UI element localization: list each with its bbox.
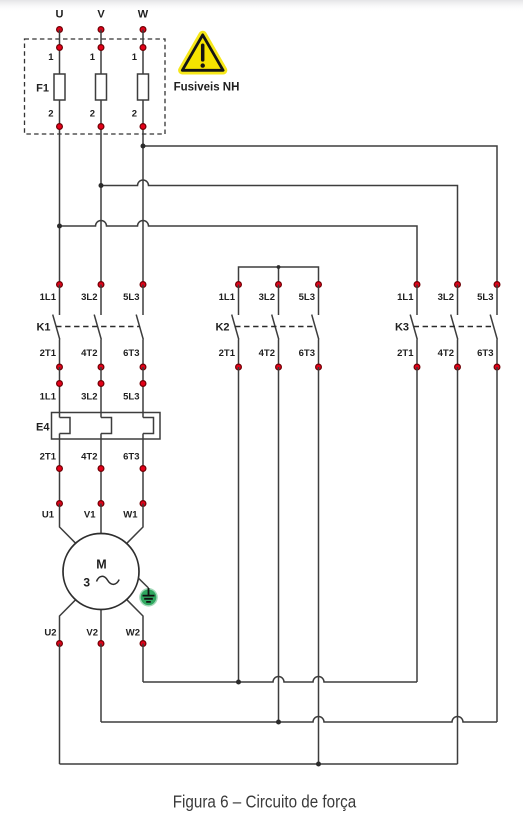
terminal dot U (enclosure top): [57, 45, 63, 51]
svg-text:2T1: 2T1: [219, 348, 236, 359]
svg-text:2T1: 2T1: [397, 348, 414, 359]
svg-text:3: 3: [83, 576, 90, 590]
terminal dot K3 4T2: [455, 364, 461, 370]
svg-text:E4: E4: [36, 422, 50, 434]
terminal dot E4 3L2: [98, 381, 104, 387]
svg-text:4T2: 4T2: [259, 348, 275, 359]
svg-text:1: 1: [48, 52, 54, 63]
terminal dot motor W2: [140, 641, 146, 647]
terminal dot K3 1L1: [414, 282, 420, 288]
wire W2 down: [142, 644, 144, 683]
wire V: fuse F1 to contactor K1: [100, 100, 102, 285]
wire phase U bus to K3 1L1 (hops V,W): [60, 221, 418, 285]
terminal dot K2 3L2: [276, 282, 282, 288]
wire motor lead V2: [100, 609, 102, 644]
terminal dot motor U2: [57, 641, 63, 647]
fuse F1 pole 2 body: [96, 74, 107, 100]
svg-text:4T2: 4T2: [81, 452, 97, 463]
terminal dot U (enclosure bottom): [57, 124, 63, 130]
svg-text:1L1: 1L1: [40, 292, 57, 303]
svg-text:U1: U1: [42, 510, 55, 521]
caption Figura 6: [173, 793, 357, 812]
svg-text:K3: K3: [395, 322, 409, 334]
svg-text:K1: K1: [36, 322, 50, 334]
terminal dot E4 6T3: [140, 466, 146, 472]
wire U2 down: [59, 644, 61, 765]
junction phase U / bus: [57, 224, 62, 229]
svg-text:5L3: 5L3: [123, 392, 139, 403]
overload relay E4 body: [52, 413, 161, 440]
terminal dot K3 3L2: [455, 282, 461, 288]
svg-text:Figura 6 – Circuito de força: Figura 6 – Circuito de força: [173, 793, 357, 812]
fuse F1 dashed enclosure: [25, 39, 166, 134]
wire E4 6T3 to motor W1: [142, 434, 144, 504]
terminal dot K3 5L3: [494, 282, 500, 288]
wire bus U2 / K2 6T3 / K3 4T2: [60, 763, 458, 765]
terminal dot V: [98, 27, 104, 33]
contactor K1 pole 2 contact: [100, 285, 102, 316]
terminal dot V (enclosure top): [98, 45, 104, 51]
svg-text:1: 1: [90, 52, 96, 63]
svg-text:V1: V1: [84, 510, 96, 521]
terminal dot E4 2T1: [57, 466, 63, 472]
terminal dot motor U1: [57, 501, 63, 507]
wire K1 4T2 to E4 3L2: [100, 367, 102, 418]
wire K2 3L2 riser: [278, 267, 280, 285]
svg-text:U2: U2: [44, 628, 56, 639]
svg-text:3L2: 3L2: [438, 292, 454, 303]
wire W: fuse F1 to contactor K1: [142, 100, 144, 285]
wire K2 6T3 down: [318, 367, 320, 764]
junction K2 6T3 / bus: [316, 762, 321, 767]
svg-text:K2: K2: [215, 322, 229, 334]
junction K2 4T2 / bus: [276, 720, 281, 725]
svg-text:6T3: 6T3: [123, 348, 139, 359]
svg-text:3L2: 3L2: [81, 292, 97, 303]
terminal dot K2 6T3: [316, 364, 322, 370]
wire bus V2 / K2 4T2 / K3 6T3 (hops K2 6T3, K3 4T2): [101, 717, 497, 722]
wire K3 4T2 down: [457, 367, 459, 764]
terminal dot V (enclosure bottom): [98, 124, 104, 130]
junction phase W / bus: [141, 144, 146, 149]
wire K3 2T1 down: [416, 367, 418, 682]
svg-text:6T3: 6T3: [299, 348, 315, 359]
terminal dot K1 4T2: [98, 364, 104, 370]
svg-text:5L3: 5L3: [123, 292, 139, 303]
wire bus W2 / K2 2T1 / K3 2T1 (hops K2 4T2, K2 6T3): [143, 677, 417, 683]
terminal dot K1 6T3: [140, 364, 146, 370]
overload relay E4 heater element 1: [60, 418, 71, 434]
fuse F1 pole 3 body: [138, 74, 149, 100]
svg-text:2: 2: [48, 109, 53, 120]
contactor K3 pole 3 contact: [496, 285, 498, 316]
warning icon (Fusiveis NH): [182, 35, 223, 70]
terminal dot U: [57, 27, 63, 33]
svg-text:3L2: 3L2: [259, 292, 275, 303]
svg-text:F1: F1: [36, 83, 49, 95]
terminal dot E4 5L3: [140, 381, 146, 387]
svg-text:5L3: 5L3: [299, 292, 315, 303]
wire phase V bus to K3 3L2 (hops W): [101, 180, 458, 285]
svg-text:2T1: 2T1: [40, 452, 57, 463]
wire K2 2T1 down: [238, 367, 240, 682]
terminal dot motor V2: [98, 641, 104, 647]
wire motor lead W2: [127, 600, 143, 644]
svg-text:4T2: 4T2: [81, 348, 97, 359]
wire E4 2T1 to motor U1: [59, 434, 61, 504]
svg-text:3L2: 3L2: [81, 392, 97, 403]
contactor K1 pole 1 contact: [59, 285, 61, 316]
contactor K1 pole 3 contact: [142, 285, 144, 316]
terminal dot E4 4T2: [98, 466, 104, 472]
wire K2 star-point bus: [239, 267, 319, 285]
junction K2 star bus: [277, 265, 281, 269]
wire U: fuse F1 to contactor K1: [59, 100, 61, 285]
terminal dot K2 2T1: [236, 364, 242, 370]
wire K3 6T3 down: [496, 367, 498, 722]
wire K2 4T2 down: [278, 367, 280, 722]
contactor K2 pole 1 contact: [238, 285, 240, 316]
terminal dot motor W1: [140, 501, 146, 507]
svg-text:2: 2: [90, 109, 95, 120]
contactor K3 pole 2 contact: [457, 285, 459, 316]
wire V into fuse enclosure: [100, 30, 102, 75]
terminal dot K1 3L2: [98, 282, 104, 288]
contactor K3 mechanical link: [414, 326, 494, 328]
svg-text:6T3: 6T3: [123, 452, 139, 463]
contactor K1 mechanical link: [56, 326, 140, 328]
wire W into fuse enclosure: [142, 30, 144, 75]
terminal dot K2 5L3: [316, 282, 322, 288]
svg-text:1L1: 1L1: [40, 392, 57, 403]
ground: [139, 588, 158, 607]
svg-text:1L1: 1L1: [219, 292, 236, 303]
terminal dot K2 4T2: [276, 364, 282, 370]
svg-text:1L1: 1L1: [397, 292, 414, 303]
svg-text:5L3: 5L3: [477, 292, 493, 303]
terminal dot W: [140, 27, 146, 33]
wire V2 down: [100, 644, 102, 723]
wire phase W bus to K3 5L3: [143, 146, 497, 285]
svg-text:W: W: [138, 9, 149, 21]
contactor K2 pole 3 contact: [318, 285, 320, 316]
wire motor frame to ground: [139, 578, 149, 588]
svg-text:2: 2: [132, 109, 137, 120]
contactor K3 pole 1 contact: [416, 285, 418, 316]
wire K1 6T3 to E4 5L3: [142, 367, 144, 418]
svg-text:V2: V2: [86, 628, 98, 639]
wire motor lead U2: [60, 600, 76, 644]
terminal dot W (enclosure bottom): [140, 124, 146, 130]
terminal dot K2 1L1: [236, 282, 242, 288]
terminal dot W (enclosure top): [140, 45, 146, 51]
svg-text:M: M: [96, 558, 106, 572]
svg-text:Fusiveis NH: Fusiveis NH: [174, 82, 240, 94]
wire K1 2T1 to E4 1L1: [59, 367, 61, 418]
overload relay E4 heater element 2: [101, 418, 112, 434]
terminal dot motor V1: [98, 501, 104, 507]
overload relay E4 heater element 3: [143, 418, 154, 434]
wire E4 4T2 to motor V1: [100, 434, 102, 504]
junction K2 2T1 / bus: [236, 680, 241, 685]
terminal dot E4 1L1: [57, 381, 63, 387]
terminal dot K1 1L1: [57, 282, 63, 288]
svg-text:U: U: [56, 9, 64, 21]
svg-text:V: V: [97, 9, 105, 21]
svg-text:W2: W2: [126, 628, 140, 639]
wire U into fuse enclosure: [59, 30, 61, 75]
wire motor lead V1: [100, 504, 102, 535]
svg-text:4T2: 4T2: [438, 348, 454, 359]
junction phase V / bus: [99, 183, 104, 188]
wire motor lead U1: [60, 504, 76, 544]
svg-text:1: 1: [132, 52, 138, 63]
terminal dot K1 5L3: [140, 282, 146, 288]
fuse F1 pole 1 body: [54, 74, 65, 100]
svg-text:W1: W1: [123, 510, 138, 521]
terminal dot K1 2T1: [57, 364, 63, 370]
wire motor lead W1: [127, 504, 143, 544]
terminal dot K3 2T1: [414, 364, 420, 370]
contactor K2 mechanical link: [235, 326, 315, 328]
motor M 3~: [63, 534, 139, 610]
contactor K2 pole 2 contact: [278, 285, 280, 316]
terminal dot K3 6T3: [494, 364, 500, 370]
svg-text:2T1: 2T1: [40, 348, 57, 359]
svg-text:6T3: 6T3: [477, 348, 493, 359]
